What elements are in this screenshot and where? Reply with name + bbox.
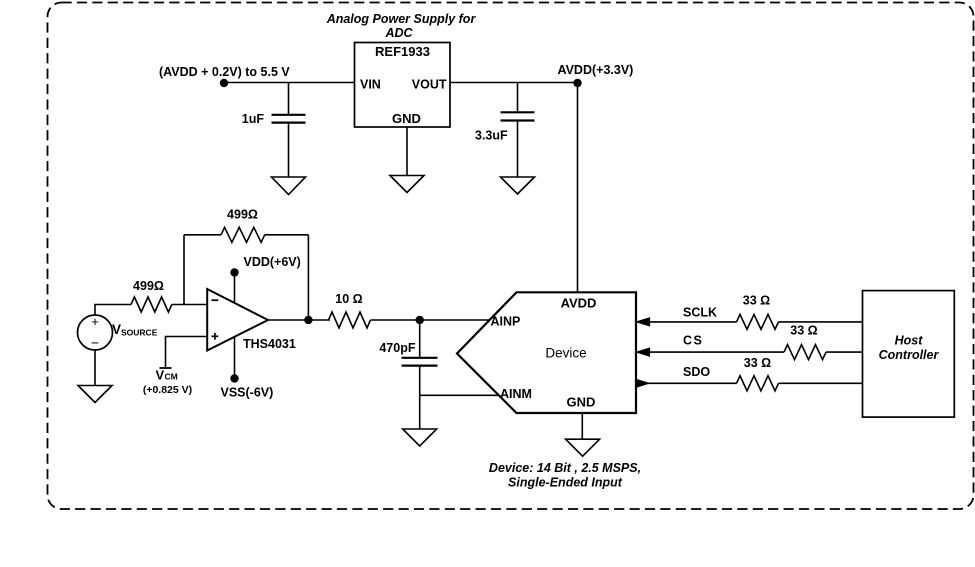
wire: SDO left segment <box>648 382 737 384</box>
svg-text:ADC: ADC <box>384 26 413 40</box>
host controller box <box>863 291 955 418</box>
svg-text:Controller: Controller <box>879 348 940 362</box>
svg-text:AINM: AINM <box>500 387 532 401</box>
node AVDD junction dot <box>573 79 581 87</box>
wire: feedback right vertical down to output node <box>307 235 309 320</box>
wire: feedback top right segment <box>265 234 309 236</box>
capacitor 1uF <box>272 115 306 123</box>
wire: resistor to inverting input <box>172 304 207 306</box>
wire: REF1933 GND pin to ground <box>406 127 408 176</box>
node VDD terminal dot <box>230 268 238 276</box>
ground (below REF1933) <box>390 176 424 193</box>
node output junction dot <box>304 316 312 324</box>
ground (below 1uF) <box>272 177 306 195</box>
svg-text:V: V <box>156 368 165 383</box>
svg-text:(AVDD + 0.2V) to 5.5 V: (AVDD + 0.2V) to 5.5 V <box>159 65 290 79</box>
wire: 10 ohm to AINP <box>371 319 490 321</box>
resistor 33 ohm (SDO) <box>737 376 779 391</box>
svg-text:SCLK: SCLK <box>683 306 717 320</box>
svg-text:Device: Device <box>545 346 586 361</box>
svg-text:Device: 14 Bit , 2.5 MSPS,: Device: 14 Bit , 2.5 MSPS, <box>489 461 641 475</box>
ground (below device) <box>566 439 600 456</box>
wire: CS left segment <box>648 351 784 353</box>
wire: source top up and right to input resistor <box>95 305 131 316</box>
node: supply input terminal dot <box>220 79 228 87</box>
svg-text:−: − <box>91 335 99 351</box>
caption: device description <box>489 461 641 490</box>
svg-text:VSS(-6V): VSS(-6V) <box>221 386 274 400</box>
device U2 ADC body <box>457 292 636 413</box>
svg-text:AINP: AINP <box>491 315 521 329</box>
wire: feedback left vertical <box>183 235 185 305</box>
resistor 499 ohm (feedback) <box>221 227 265 242</box>
svg-text:1uF: 1uF <box>242 112 265 126</box>
svg-text:VIN: VIN <box>360 78 381 92</box>
node VSS terminal dot <box>230 374 238 382</box>
wire: op-amp output to 10 ohm resistor <box>268 319 330 321</box>
arrowhead out of device SDO <box>636 379 649 387</box>
svg-text:AVDD(+3.3V): AVDD(+3.3V) <box>558 63 634 77</box>
node AINP junction dot <box>416 316 424 324</box>
svg-text:CM: CM <box>165 372 178 382</box>
capacitor 470pF <box>402 358 438 366</box>
wire: device GND to ground <box>581 413 583 439</box>
ground (below 470pF) <box>403 429 437 446</box>
wire: SDO right segment to host <box>779 382 863 384</box>
wire: input terminal to VIN <box>224 82 355 84</box>
svg-text:GND: GND <box>392 111 421 126</box>
wire: SCLK right segment to host <box>779 321 863 323</box>
capacitor 3.3uF <box>501 112 535 120</box>
wire: down to capacitor C 1uF <box>288 83 290 115</box>
label VSOURCE <box>112 322 158 338</box>
wire: 470pF bottom down to ground <box>419 366 421 429</box>
wire: VOUT to AVDD node <box>450 82 578 84</box>
wire: VDD dot into op-amp <box>234 273 236 304</box>
wire: AINM horizontal tap <box>420 394 499 396</box>
arrowhead into device CS <box>636 348 649 356</box>
svg-text:499Ω: 499Ω <box>133 279 164 293</box>
resistor 33 ohm (CS) <box>784 345 826 360</box>
wire: 3.3uF to ground <box>517 121 519 178</box>
svg-text:GND: GND <box>567 395 596 410</box>
svg-text:Single-Ended Input: Single-Ended Input <box>508 476 623 490</box>
svg-text:V: V <box>112 322 121 337</box>
wire: op-amp to VSS dot <box>234 338 236 379</box>
wire: 1uF to ground <box>288 123 290 178</box>
svg-text:SOURCE: SOURCE <box>121 328 158 338</box>
svg-text:CS: CS <box>683 334 703 348</box>
svg-text:3.3uF: 3.3uF <box>475 129 508 143</box>
wire: CS right segment to host <box>826 351 863 353</box>
svg-text:AVDD: AVDD <box>561 296 597 311</box>
svg-text:Host: Host <box>895 334 924 348</box>
wire: SCLK left segment <box>648 321 737 323</box>
wire: feedback top left segment <box>184 234 221 236</box>
svg-text:33 Ω: 33 Ω <box>790 324 817 338</box>
arrowhead into device SCLK <box>636 318 649 326</box>
svg-text:REF1933: REF1933 <box>375 44 430 59</box>
wire: down to capacitor 3.3uF <box>517 83 519 113</box>
svg-text:+: + <box>91 314 99 329</box>
svg-text:470pF: 470pF <box>379 341 415 355</box>
svg-text:VOUT: VOUT <box>412 78 447 92</box>
regulator U? REF1933 box <box>355 43 451 128</box>
svg-text:Analog Power Supply for: Analog Power Supply for <box>326 12 477 26</box>
svg-text:SDO: SDO <box>683 365 710 379</box>
resistor 10 ohm <box>329 312 371 328</box>
resistor 499 ohm (input) <box>131 297 172 312</box>
ground (below 3.3uF) <box>501 177 535 194</box>
wire: AINP node down to 470pF <box>419 320 421 357</box>
svg-text:499Ω: 499Ω <box>227 208 258 222</box>
net label VCM <box>156 368 178 383</box>
title: Analog Power Supply for ADC <box>326 12 477 40</box>
svg-text:VDD(+6V): VDD(+6V) <box>244 255 301 269</box>
wire: source bottom to ground <box>94 350 96 386</box>
resistor 33 ohm (SCLK) <box>737 314 779 329</box>
svg-text:33 Ω: 33 Ω <box>744 356 771 370</box>
svg-text:(+0.825 V): (+0.825 V) <box>143 384 192 396</box>
wire: non-inverting input to VCM bar <box>166 337 208 368</box>
terminal bar VCM <box>160 367 172 369</box>
svg-text:10 Ω: 10 Ω <box>335 292 362 306</box>
svg-text:THS4031: THS4031 <box>243 337 296 351</box>
svg-text:33 Ω: 33 Ω <box>743 294 770 308</box>
source VSOURCE <box>78 314 113 351</box>
wire: AVDD node down to device AVDD pin <box>577 83 579 292</box>
op-amp U1 THS4031 <box>207 289 268 351</box>
ground (below source) <box>78 386 112 403</box>
